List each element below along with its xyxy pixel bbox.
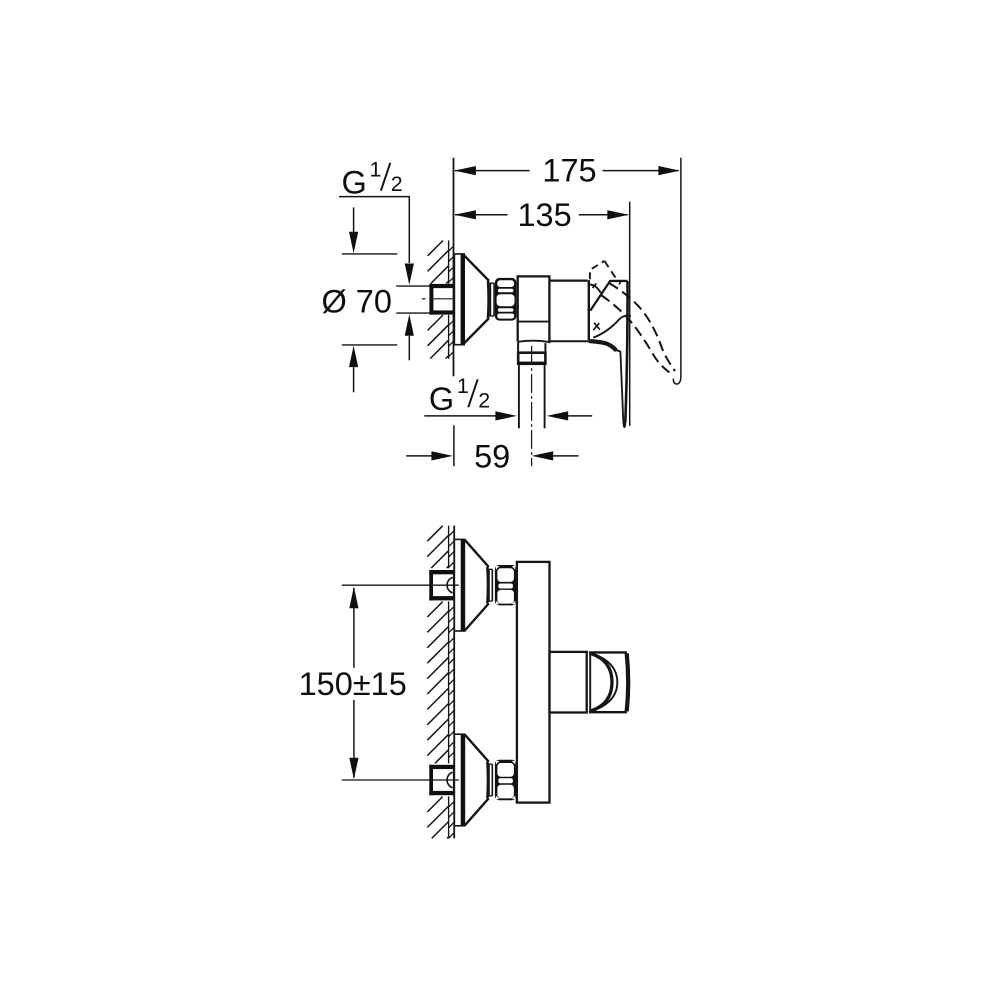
outlet pipe centerline [531,346,533,466]
dimension 59 [406,425,578,474]
svg-text:G: G [342,165,367,201]
shower outlet union [518,341,550,364]
dimension 150 plus/minus 15 [299,587,407,780]
wall hatch bottom view [427,526,454,839]
upper connection escutcheon cone [464,539,488,631]
hex nut (top view) [495,278,517,321]
handle contour arc [593,316,631,338]
label G 1/2 (supply thread, top) [342,157,403,200]
leader G1/2 top [339,197,414,285]
dimension diameter 70 [322,207,398,392]
dashed lever rail upper [609,283,675,371]
nipple centerline [422,298,458,300]
svg-text:2: 2 [478,389,490,413]
wall inner band line bottom view [448,526,450,839]
cartridge cap dome [588,280,611,310]
lower connection square union behind wall [429,765,455,795]
dimension 135 [454,197,628,233]
svg-text:G: G [429,381,454,417]
outlet block (bottom view) [550,652,587,713]
upper connection hex nut [495,565,516,605]
lower connection centerline / extension line [342,779,459,781]
wall surface line / left extension line top view [453,158,455,376]
svg-text:150±15: 150±15 [299,666,407,702]
handle underside curl [589,341,616,351]
handle lever blade (closed position) [610,281,628,427]
cone neck ring [489,283,495,316]
dashed lever rail lower [601,295,670,373]
svg-text:1: 1 [370,157,382,181]
svg-text:2: 2 [391,172,403,196]
upper connection neck ring [488,569,492,601]
escutcheon cone (top view) [463,254,489,344]
upper connection square union behind wall [429,570,455,600]
lower connection escutcheon flange [454,734,464,826]
wall inner band line top view [448,240,450,358]
dashed lever cross fragments [593,323,600,331]
svg-text:175: 175 [542,153,596,189]
wall surface line bottom view [453,526,455,839]
dashed lever outline (raised position) top [590,261,621,288]
lower connection escutcheon cone [464,734,488,826]
lower connection hex nut [495,760,516,800]
lower connection neck ring [488,764,492,796]
escutcheon flange (top view) [454,254,464,345]
leader G1/2 outlet with arrows [424,411,592,420]
svg-text:Ø 70: Ø 70 [322,283,392,319]
dimension 175 [454,153,680,189]
svg-text:1: 1 [457,374,469,398]
handle dome (bottom view) [589,652,628,712]
wall hatch top view [428,241,454,359]
right extension line of 175 with lever tip hook [673,158,680,384]
arrow up to nipple bottom [405,314,414,360]
svg-text:135: 135 [517,197,571,233]
label G 1/2 (outlet thread, bottom) [429,374,490,417]
G1/2 supply nipple [396,284,453,315]
body plate (bottom view) [517,562,550,803]
extension line of 135 [629,202,631,426]
cartridge housing midsection [549,280,589,341]
upper connection escutcheon flange [454,539,464,631]
shower outlet pipe G1/2 [519,364,545,428]
svg-text:59: 59 [474,438,510,474]
mixer body block (top view) [518,276,550,342]
upper connection centerline / extension line [342,584,459,586]
